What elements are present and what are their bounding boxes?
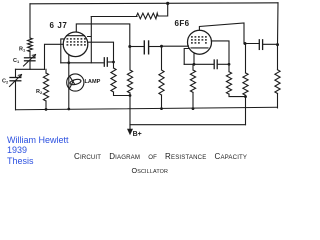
resistor R5 (6J7 plate load, node A column): [127, 47, 132, 94]
svg-text:LAMP: LAMP: [85, 79, 101, 85]
wire C1 down to wien node: [29, 61, 31, 70]
wire R2 to ground rail: [45, 101, 47, 109]
capacitor C2 (variable): [10, 75, 22, 87]
tube U1 plate bar: [67, 35, 85, 37]
wire U2 top cap plate line: [199, 23, 244, 44]
svg-text:B+: B+: [133, 131, 142, 138]
wire U1 suppressor tie-down: [61, 39, 64, 63]
node R2 ground junction: [45, 108, 48, 111]
resistor R9 (6F6 plate load): [243, 44, 248, 96]
capacitor C1 (variable): [24, 55, 36, 67]
node cathode junction: [67, 61, 70, 64]
wire node B to 6F6 grid: [162, 45, 189, 48]
wire U2 suppressor tie-down: [184, 49, 189, 65]
node R7 ground junction: [192, 107, 195, 110]
svg-text:6F6: 6F6: [175, 19, 190, 28]
label credit (blue): [7, 135, 69, 167]
resistor R8 (6F6 screen): [226, 64, 231, 94]
wire plate feedback line: [91, 16, 137, 18]
label caption line 1: [74, 152, 247, 161]
capacitor C5 (6F6 bypass): [214, 60, 229, 69]
node screen cap junction: [228, 63, 231, 66]
wire U2 screen lead: [211, 41, 229, 64]
tube U2 grid dots: [191, 36, 207, 43]
wire U1 cathode line: [61, 62, 104, 64]
resistor R7 (6F6 cathode): [190, 64, 195, 92]
tube U2 cathode bar: [191, 47, 208, 49]
node lamp ground junction: [67, 108, 70, 111]
node screen-cap junction: [112, 61, 115, 64]
wire right edge drop: [277, 3, 280, 70]
capacitor C3 (screen bypass): [104, 58, 113, 66]
wire top rail: [30, 3, 278, 4]
resistor R2: [43, 73, 48, 101]
tube U1 grid dots: [67, 38, 86, 45]
label caption line 2: [132, 166, 169, 175]
node A junction: [128, 45, 131, 48]
node top-rail feedback junction: [166, 2, 169, 5]
wire U2 cathode line: [184, 63, 214, 65]
wire R2 branch stub: [45, 69, 47, 73]
capacitor C4 (interstage coupling): [130, 41, 162, 54]
wire U1 top cap to node A: [76, 24, 130, 47]
node R8/R9 junction: [244, 95, 247, 98]
wire R9 to B+ bus: [245, 95, 247, 124]
wire R8 bottom jog: [229, 94, 246, 97]
node B+ top junction: [129, 94, 132, 97]
wire U1 plate stub up: [88, 17, 92, 63]
wire R3 to top rail: [158, 3, 168, 16]
wire grid riser to 6J7: [45, 44, 64, 69]
wire ground rail (rail1): [16, 107, 278, 110]
tube U1 6J7 envelope: [63, 32, 88, 57]
node plate/output junction: [244, 42, 247, 45]
wire R5 bottom to B+ drop: [129, 93, 131, 96]
tube U2 6F6 envelope: [188, 30, 212, 54]
wire left drop to R1: [29, 4, 31, 38]
svg-text:R1: R1: [19, 47, 26, 53]
wire R1 to C1: [29, 52, 31, 58]
node R6 ground junction: [160, 107, 163, 110]
resistor R10 (output load): [275, 70, 280, 94]
capacitor C6 (output coupling): [244, 40, 278, 50]
wire B+ drop: [129, 96, 131, 131]
svg-text:C2: C2: [2, 79, 9, 85]
node output right junction: [276, 43, 279, 46]
wire R4 bottom jog to B+ column: [114, 92, 131, 96]
wire C2 branch down: [15, 69, 17, 76]
svg-text:C1: C1: [13, 58, 20, 64]
lamp LP1: [67, 74, 84, 91]
wire R7 to ground rail: [192, 92, 194, 108]
wire U2 cathode stub: [193, 53, 195, 64]
resistor R3 (feedback): [137, 13, 159, 19]
wire U1 screen lead: [88, 42, 114, 61]
resistor R4 (screen dropper): [111, 62, 116, 92]
wire wien node horizontal: [16, 68, 45, 70]
svg-text:6 J7: 6 J7: [50, 21, 68, 30]
resistor R1: [28, 38, 33, 52]
wire C2 to ground rail: [15, 81, 17, 110]
node U2 cathode junction: [193, 63, 196, 66]
B+ arrowhead: [127, 129, 133, 136]
node B junction: [160, 45, 163, 48]
resistor R6 (6F6 grid leak): [159, 46, 164, 95]
wire R10 to ground rail: [277, 94, 279, 108]
wire B+ bus (rail2): [130, 124, 246, 126]
svg-text:R2: R2: [36, 89, 43, 95]
wire cathode through lamp to ground rail: [68, 63, 70, 109]
wire R6 to ground rail: [161, 95, 163, 109]
wire U1 cathode stub: [68, 55, 70, 63]
